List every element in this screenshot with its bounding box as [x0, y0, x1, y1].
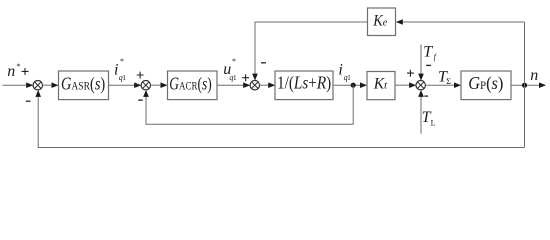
- arrow into G_ACR: [161, 82, 168, 88]
- label T_Sigma: [438, 68, 451, 86]
- svg-text:1: 1: [233, 73, 237, 82]
- arrow into G_ASR: [52, 82, 59, 88]
- wire inner current feedback loop: [146, 85, 353, 124]
- wire feedback tap vertical right: [524, 22, 526, 148]
- svg-text:L: L: [431, 118, 436, 127]
- block G_P(s): [461, 71, 511, 100]
- summing junction S4: [416, 81, 425, 90]
- sign minus below S4: [424, 95, 428, 97]
- wire S3 to electrical block: [260, 84, 269, 86]
- arrow down into S4 from T_f: [418, 74, 424, 81]
- arrow up into S2: [143, 90, 149, 97]
- summing junction S1: [33, 81, 42, 90]
- block K_e: [368, 8, 396, 36]
- arrow into K_t: [360, 82, 367, 88]
- sign plus at S2: [137, 72, 144, 79]
- svg-text:GP(s): GP(s): [468, 73, 503, 93]
- wire G_P to output n: [511, 84, 540, 86]
- wire electrical block to K_t: [333, 84, 361, 86]
- wire K_t to S4: [395, 84, 410, 86]
- svg-text:*: *: [16, 61, 20, 71]
- sign plus at S4: [407, 70, 414, 77]
- wire outer speed feedback loop: [38, 96, 524, 148]
- label u*_q1: [223, 57, 237, 82]
- wire K_e output down into S3: [255, 22, 368, 75]
- svg-text:*: *: [120, 57, 124, 66]
- label i_q1: [338, 61, 351, 82]
- sign minus above S4: [426, 64, 431, 66]
- arrow into summing junction S2: [134, 82, 141, 88]
- label n*: [7, 61, 20, 80]
- summing junction S3: [250, 81, 259, 90]
- sign plus at S1: [22, 68, 29, 75]
- wire top feedback to K_e: [402, 21, 525, 23]
- svg-text:i: i: [338, 61, 342, 78]
- arrow left into K_e: [396, 19, 403, 25]
- sign plus at S3: [242, 74, 249, 81]
- wire G_ASR to S2: [109, 84, 135, 86]
- svg-text:T: T: [423, 44, 433, 61]
- block G_ACR(s): [168, 71, 218, 100]
- node dot output tap: [522, 83, 527, 88]
- sign minus right of K_e feedback arrow: [261, 62, 266, 64]
- wire S4 to G_P: [425, 84, 454, 86]
- svg-text:n: n: [530, 67, 538, 84]
- svg-text:Σ: Σ: [446, 76, 451, 86]
- wire S1 to G_ASR: [43, 84, 53, 86]
- svg-text:*: *: [232, 57, 236, 66]
- svg-text:1: 1: [122, 73, 126, 82]
- svg-text:1/(Ls+R): 1/(Ls+R): [277, 72, 331, 93]
- svg-text:1: 1: [347, 73, 351, 82]
- summing junction S2: [141, 81, 150, 90]
- svg-text:i: i: [114, 61, 118, 78]
- arrow into summing junction S1: [26, 82, 33, 88]
- arrow down into S3: [252, 74, 258, 81]
- label T_f: [423, 44, 437, 62]
- label i*_q1: [114, 57, 126, 82]
- sign minus below S1: [26, 100, 31, 102]
- arrow into summing junction S3: [243, 82, 250, 88]
- node dot i_q1 tap: [351, 83, 356, 88]
- arrow into electrical block: [268, 82, 275, 88]
- wire T_L input up into S4: [420, 96, 422, 134]
- block G_ASR(s): [59, 71, 109, 100]
- arrow output n: [539, 82, 546, 88]
- arrow into summing junction S4: [409, 82, 416, 88]
- label T_L: [422, 109, 436, 127]
- arrow up into S4 from T_L: [418, 90, 424, 97]
- block 1/(Ls+R): [275, 71, 333, 100]
- block K_t: [367, 72, 395, 100]
- wire S2 to G_ACR: [151, 84, 162, 86]
- svg-text:n: n: [7, 63, 15, 80]
- sign minus below S2: [138, 99, 143, 101]
- wire G_ACR to S3: [217, 84, 244, 86]
- arrow up into S1: [35, 90, 41, 97]
- wire input n*: [3, 84, 28, 86]
- arrow into G_P: [454, 82, 461, 88]
- wire T_f input down into S4: [420, 45, 422, 75]
